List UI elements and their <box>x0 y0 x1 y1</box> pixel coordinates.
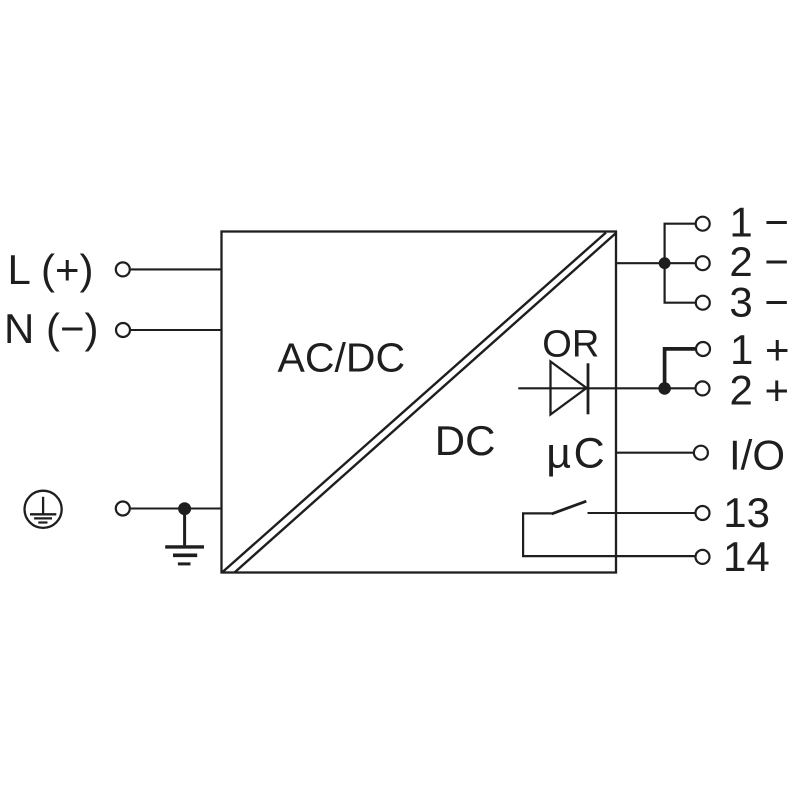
svg-text:N (−): N (−) <box>4 305 99 352</box>
terminal 1- <box>696 217 710 231</box>
terminal 1+ <box>696 342 710 356</box>
terminal N <box>116 323 130 337</box>
junction dot on PE wire <box>178 502 191 515</box>
diagonal separator line 2 <box>235 233 617 573</box>
wire L to block <box>131 268 222 270</box>
earth ground symbol <box>165 547 204 564</box>
protective earth symbol (circled PE) <box>24 491 61 528</box>
terminal 13 <box>696 506 710 520</box>
svg-text:13: 13 <box>723 489 770 536</box>
branch wire to terminal 1- <box>664 223 696 225</box>
diode D1 wire <box>518 387 694 389</box>
wire N to block <box>131 329 222 331</box>
svg-text:3 −: 3 − <box>729 279 789 326</box>
junction dot minus bus <box>659 257 671 269</box>
relay return wire to terminal 14 <box>523 513 694 556</box>
terminal 2+ <box>696 381 710 395</box>
minus bus vertical wire <box>663 224 665 303</box>
terminal L <box>116 262 130 276</box>
relay contact arm <box>552 501 587 514</box>
terminal 2- <box>696 256 710 270</box>
diode D1 anode triangle <box>551 362 587 415</box>
power supply block U1 <box>222 232 617 573</box>
terminal 3- <box>696 296 710 310</box>
wire PE to block <box>131 507 222 509</box>
svg-text:µC: µC <box>546 430 607 478</box>
diode D1 cathode bar <box>587 363 590 414</box>
svg-text:2 +: 2 + <box>730 367 790 414</box>
junction dot plus bus <box>658 382 671 395</box>
svg-text:DC: DC <box>435 417 496 464</box>
wire output minus from block <box>616 262 695 264</box>
svg-text:L (+): L (+) <box>8 246 94 293</box>
svg-text:I/O: I/O <box>729 431 785 478</box>
terminal I/O <box>694 446 708 460</box>
svg-text:AC/DC: AC/DC <box>278 335 406 381</box>
ground stem wire <box>183 509 186 546</box>
wire I/O from block <box>616 452 694 454</box>
thick branch wire to terminal 1+ <box>665 349 695 389</box>
svg-text:OR: OR <box>542 323 599 365</box>
svg-text:14: 14 <box>723 533 770 580</box>
branch wire to terminal 3- <box>664 302 696 304</box>
diagonal separator line 1 <box>222 233 606 573</box>
terminal 14 <box>696 550 710 564</box>
terminal PE <box>116 502 130 516</box>
relay contact fixed lead <box>522 512 552 514</box>
wire to terminal 13 <box>588 512 695 514</box>
